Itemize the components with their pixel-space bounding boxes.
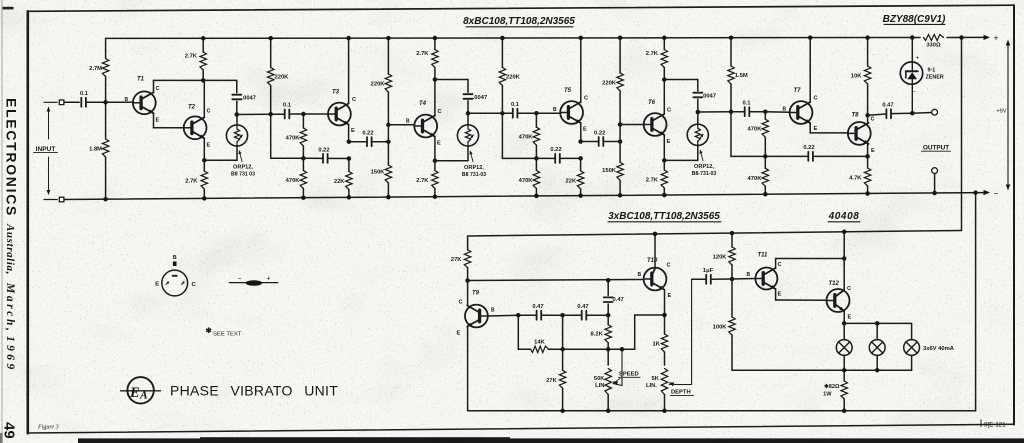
LDR ORP12 first — [226, 115, 247, 161]
resistor 470K lower stage1 — [286, 158, 307, 197]
wire 0.1 to T5 base node — [517, 112, 536, 114]
svg-text:9·1: 9·1 — [928, 68, 936, 74]
svg-text:B: B — [173, 255, 177, 261]
svg-text:✱82Ω: ✱82Ω — [824, 383, 840, 390]
capacitor 0.22 stage3 — [765, 145, 867, 161]
wire 1uF to T11 base node — [711, 278, 732, 280]
svg-text:22K: 22K — [334, 179, 345, 185]
svg-text:PHASE VIBRATO UNIT: PHASE VIBRATO UNIT — [170, 383, 338, 399]
INPUT label with span arrows — [34, 107, 58, 196]
svg-text:1μF: 1μF — [703, 268, 714, 274]
node 0.22 stage2 at divider — [618, 139, 623, 144]
node 27K tail at 0V rail — [560, 409, 565, 414]
spine text ELECTRONICS — [4, 98, 20, 217]
title PHASE VIBRATO UNIT — [170, 383, 338, 399]
title 40408 — [828, 211, 860, 222]
node 220K at +9V rail — [268, 36, 273, 41]
svg-text:T10: T10 — [647, 258, 658, 264]
wire T3 emitter down — [348, 125, 350, 142]
svg-text:C: C — [871, 117, 875, 123]
transistor T6 — [644, 100, 671, 145]
node 470K midpoint stage2 — [534, 156, 539, 161]
caption Figure 3 — [37, 425, 59, 431]
input terminal top — [59, 100, 64, 105]
svg-text:10K: 10K — [851, 74, 862, 80]
svg-text:B8-731-03: B8-731-03 — [692, 171, 717, 177]
transistor T1 — [125, 77, 160, 124]
wire input bottom stub — [44, 199, 57, 201]
wire first 0.47 tap down — [517, 315, 519, 349]
DEPTH label — [671, 390, 694, 396]
svg-text:8.2K: 8.2K — [591, 332, 604, 338]
svg-text:C: C — [847, 286, 851, 292]
node divider at +9V rail — [386, 36, 391, 41]
transistor T8 — [848, 113, 875, 155]
capacitor 0.22 series stage2 — [581, 130, 621, 146]
wire 1.5M junction to 0.1 stage3 — [731, 111, 745, 113]
resistor 2.7M — [89, 38, 109, 102]
node 22K at 0V rail — [347, 195, 352, 200]
title 8xBC108,TT108,2N3565 — [463, 16, 575, 27]
svg-text:470K: 470K — [748, 176, 763, 182]
wire T9 collector node to T10 base — [468, 280, 644, 281]
node third 0.47 junction — [606, 313, 611, 318]
wire +9V feed to oscillator section — [961, 38, 963, 231]
node T12 emitter junction — [842, 321, 847, 326]
resistor 470K lower stage3 — [748, 156, 769, 194]
node speed wiper tie — [620, 347, 625, 352]
svg-text:0.22: 0.22 — [550, 147, 561, 153]
input terminal bottom — [59, 197, 64, 202]
svg-text:1W: 1W — [823, 392, 832, 398]
wire depth wiper to 1uF cap — [692, 278, 707, 280]
svg-text:C: C — [438, 109, 442, 115]
node 0.22 at divider — [386, 139, 391, 144]
wire T12 emitter down — [843, 311, 845, 323]
svg-text:C: C — [207, 109, 211, 115]
resistor 82 ohm 1W — [823, 370, 847, 411]
node 2.7K load at +9V rail — [201, 36, 206, 41]
wire 14K junction to 8.2K junction — [563, 348, 635, 350]
svg-text:470K: 470K — [286, 136, 301, 142]
node T6 emitter resistor at 0V rail — [662, 193, 667, 198]
resistor 470K upper stage1 — [286, 114, 307, 158]
node 1.5M at +9V rail — [729, 35, 734, 40]
node T6 emitter / ORP12 return — [662, 158, 667, 163]
wire T9 base to network — [487, 314, 518, 317]
svg-text:0.47: 0.47 — [613, 297, 624, 303]
node T4 base tap — [386, 123, 391, 128]
svg-text:220K: 220K — [602, 80, 617, 86]
capacitor .0047 stage3 — [693, 80, 702, 113]
svg-text:BZY88(C9V1): BZY88(C9V1) — [883, 14, 946, 25]
capacitor 0.1 input coupling — [80, 91, 89, 107]
output terminal bottom — [932, 168, 938, 174]
resistor 27K oscillator tail — [546, 349, 566, 411]
node divider stage2 at +9V rail — [618, 36, 623, 41]
svg-text:C: C — [814, 96, 818, 102]
wire T1 collector — [154, 80, 237, 92]
wire T6 emitter down — [664, 135, 698, 160]
bottom black scan band — [78, 437, 1024, 443]
wire +9V top supply rail — [106, 37, 983, 38]
node .0047 junction stage3 — [696, 110, 701, 115]
resistor 2.7K T2 emitter — [185, 160, 207, 198]
wire T9 emitter to 0V rail — [467, 327, 469, 411]
capacitor 0.47 output coupling — [882, 102, 893, 118]
resistor 22K T5 emitter — [566, 158, 584, 195]
capacitor 0.22 series stage1 — [349, 131, 389, 147]
legend transistor pinout circle — [155, 255, 196, 296]
svg-text:B8 731 03: B8 731 03 — [231, 172, 255, 178]
capacitor 0.1 stage2 — [511, 102, 520, 118]
node T4 load at +9V rail — [433, 36, 438, 41]
resistor 1.5M stage3 coupling — [728, 38, 748, 112]
wire zener node to output terminal — [912, 112, 931, 115]
svg-text:B: B — [406, 119, 410, 125]
svg-text:SPEED: SPEED — [619, 372, 639, 378]
svg-text:A: A — [139, 389, 148, 401]
transistor T2 — [184, 105, 211, 149]
svg-text:0.1: 0.1 — [80, 91, 89, 97]
svg-text:50K: 50K — [594, 376, 605, 382]
capacitor 0.1 stage3 — [742, 100, 751, 116]
svg-text:2.7K: 2.7K — [416, 51, 429, 57]
svg-text:ELECTRONICS: ELECTRONICS — [4, 98, 20, 217]
node 470K midpoint stage1 — [301, 156, 306, 161]
node T5 emitter junction — [578, 139, 583, 144]
svg-text:C: C — [667, 263, 671, 269]
wire T3 collector to +9V rail — [348, 38, 350, 103]
svg-text:B: B — [783, 107, 787, 113]
svg-text:2.7K: 2.7K — [416, 178, 429, 184]
node +9V feed at top rail — [959, 35, 964, 40]
svg-text:5K: 5K — [651, 376, 659, 382]
svg-text:22K: 22K — [566, 178, 577, 184]
node T6 base tap — [618, 122, 623, 127]
wire T10 emitter down — [664, 290, 666, 315]
svg-text:1K: 1K — [652, 342, 660, 348]
wire T3 base — [303, 113, 328, 115]
wire 0.1 cap to bias node — [86, 101, 106, 103]
svg-text:C: C — [778, 262, 782, 268]
node 0.22 at T5 emitter line — [578, 156, 583, 161]
wire T11 emitter to T12 base — [776, 289, 827, 300]
LDR ORP12 second — [457, 113, 478, 161]
wire T11 collector path — [776, 259, 845, 269]
wire T7 collector to +9V rail — [809, 38, 811, 102]
node T5 collector at rail — [579, 36, 584, 41]
resistor 120K lamp driver bias upper — [713, 233, 736, 279]
label ORP12 third with pointer — [692, 150, 717, 177]
svg-text:1.8M: 1.8M — [89, 147, 102, 153]
wire T6 collector node to .0047 — [664, 79, 698, 81]
resistor 220K stage1 coupling — [268, 38, 290, 114]
node 120K at oscillator rail — [730, 231, 735, 236]
svg-text:E: E — [848, 315, 852, 321]
transistor T5 emitter follower — [553, 88, 588, 133]
svg-text:.0047: .0047 — [702, 94, 717, 100]
svg-text:3xBC108,TT108,2N3565: 3xBC108,TT108,2N3565 — [608, 211, 720, 222]
resistor 2.7K T6 collector load — [646, 38, 668, 80]
svg-text:1.5M: 1.5M — [735, 73, 748, 79]
svg-text:T6: T6 — [648, 100, 656, 106]
svg-text:40408: 40408 — [828, 211, 860, 222]
node T6 collector load junction — [662, 77, 667, 82]
node 470K at 0V rail stage1 — [301, 195, 306, 200]
resistor 2.7K T4 emitter — [416, 161, 438, 197]
node lamp1 at bottom bus — [842, 368, 847, 373]
transistor T11 darlington first — [747, 253, 782, 298]
svg-text:LIN: LIN — [595, 383, 604, 389]
svg-text:4.7K: 4.7K — [849, 176, 862, 182]
node T9 collector junction — [465, 278, 470, 283]
node 0V feed at 0V rail — [973, 190, 978, 195]
wire L-path 220K junction down-right stage1 — [271, 114, 304, 158]
svg-text:B8 731-03: B8 731-03 — [462, 172, 486, 178]
wire T12 collector to oscillator rail — [843, 232, 845, 290]
node 150K at 0V rail — [386, 195, 391, 200]
svg-text:✱: ✱ — [206, 326, 213, 335]
svg-text:E: E — [778, 292, 782, 298]
svg-text:9[E-121: 9[E-121 — [984, 421, 1006, 428]
svg-text:0.1: 0.1 — [283, 103, 292, 109]
node speed pot at 0V rail — [606, 409, 611, 414]
wire T7 emitter to T8 base — [810, 123, 848, 133]
wire 0.1 to T7 base node — [749, 111, 765, 113]
wire L-path stage3 — [731, 112, 765, 157]
svg-text:ORP12,: ORP12, — [233, 165, 253, 171]
label 3x6V 40mA — [923, 346, 955, 352]
wire lamp2 bottom lead — [876, 355, 878, 370]
spine page number 49 — [1, 422, 18, 439]
svg-text:−: − — [912, 89, 916, 96]
svg-text:T11: T11 — [758, 253, 769, 259]
svg-text:8xBC108,TT108,2N3565: 8xBC108,TT108,2N3565 — [463, 16, 575, 27]
capacitor 0.1 stage1 — [283, 103, 292, 119]
wire L-path stage2 — [502, 113, 536, 158]
capacitor .0047 bootstrap stage 1 — [232, 80, 256, 114]
label .0047 stage3 — [702, 94, 717, 100]
svg-text:470K: 470K — [519, 178, 534, 184]
svg-text:220K: 220K — [506, 75, 521, 81]
svg-text:T12: T12 — [829, 281, 840, 287]
wire input to 0.1 cap — [64, 101, 79, 103]
svg-text:E: E — [871, 148, 875, 154]
svg-text:DEPTH: DEPTH — [671, 390, 691, 396]
wire T10 collector to oscillator rail — [654, 234, 656, 268]
wire stage3 output node to RC network — [698, 111, 731, 113]
lamp 3 — [904, 340, 920, 356]
wire T8 emitter down — [867, 144, 869, 157]
transistor T12 darlington output — [827, 281, 852, 321]
wire lamp2 top lead — [876, 323, 878, 339]
node bias divider junction — [103, 100, 108, 105]
svg-text:0.1: 0.1 — [511, 102, 520, 108]
svg-text:E: E — [207, 143, 211, 149]
svg-text:220K: 220K — [275, 75, 290, 81]
svg-text:220K: 220K — [371, 82, 386, 88]
wire T6 collector — [663, 80, 665, 115]
svg-text:SEE TEXT: SEE TEXT — [213, 331, 242, 337]
svg-text:.0047: .0047 — [242, 96, 257, 102]
node T11 collector at T12 collector line — [842, 256, 847, 261]
resistor 4.7K T8 emitter — [849, 156, 871, 193]
wire T5 base — [536, 112, 560, 114]
svg-text:ZENER: ZENER — [926, 75, 944, 81]
resistor 470K lower stage2 — [519, 158, 540, 196]
svg-text:2.7K: 2.7K — [646, 178, 659, 184]
node T4 emitter resistor at 0V rail — [433, 194, 438, 199]
resistor 330 ohm in supply rail — [924, 35, 944, 49]
svg-text:B: B — [491, 308, 495, 314]
zener diode BZY88 9.1V — [900, 38, 922, 114]
wire lamp1 bottom lead — [843, 355, 845, 370]
wire 220K junction to 0.1 cap stage1 — [271, 113, 285, 115]
legend electrolytic capacitor symbol — [229, 275, 277, 286]
svg-text:T7: T7 — [794, 88, 802, 94]
resistor 220K divider stage2 — [602, 38, 623, 125]
label ORP12 second with pointer — [462, 150, 486, 178]
node zener bottom junction — [910, 111, 915, 116]
svg-text:C: C — [352, 97, 356, 103]
capacitor 0.22 shunt stage2 — [536, 147, 580, 163]
svg-text:March,: March, — [4, 282, 16, 333]
svg-text:0.22: 0.22 — [803, 145, 814, 151]
wire bias node to T1 base — [106, 101, 133, 103]
svg-text:B: B — [125, 97, 129, 103]
wire T1 emitter to T2 base — [154, 113, 184, 128]
label ORP12 first with pointer — [231, 150, 255, 178]
wire stage1 output node to RC network — [237, 113, 271, 115]
svg-text:150K: 150K — [371, 170, 386, 176]
wire lamp3 bottom lead — [911, 355, 913, 370]
node lamp2 top tap — [875, 321, 880, 326]
svg-text:T2: T2 — [188, 105, 196, 111]
node 82 ohm at 0V rail — [842, 409, 847, 414]
svg-text:14K: 14K — [534, 339, 545, 345]
resistor 220K divider stage1 — [371, 38, 392, 125]
resistor 14K oscillator — [518, 339, 562, 352]
node T4 collector load junction — [433, 77, 438, 82]
resistor 8.2K oscillator — [591, 315, 612, 349]
output terminal top — [932, 109, 938, 115]
resistor 1.8M — [89, 102, 109, 199]
svg-text:T3: T3 — [332, 90, 340, 96]
svg-text:470K: 470K — [748, 127, 763, 133]
wire oscillator +9V rail — [468, 231, 962, 237]
wire T6 base — [620, 124, 644, 126]
node 1.8M to 0V rail — [103, 197, 108, 202]
wire T11 base — [732, 278, 756, 281]
resistor 470K upper stage2 — [519, 113, 540, 158]
node T2 emitter / ORP12 return — [202, 158, 207, 163]
title 3xBC108,TT108,2N3565 — [608, 211, 721, 222]
node 220K stage2 at +9V rail — [500, 36, 505, 41]
node 470K stage2 at 0V rail — [534, 194, 539, 199]
wire T8 collector to 0.47 cap — [868, 114, 887, 115]
svg-text:OUTPUT: OUTPUT — [923, 144, 949, 151]
svg-text:0.22: 0.22 — [594, 130, 605, 136]
transistor T4 — [406, 101, 442, 147]
wire stage2 output node to RC network — [468, 112, 502, 114]
resistor 22K T3 emitter — [334, 159, 352, 198]
LDR ORP12 third — [687, 112, 708, 160]
wire oscillator 0V bottom rail — [468, 410, 976, 412]
svg-text:ORP12,: ORP12, — [694, 164, 714, 170]
top-left margin mark — [3, 7, 14, 10]
wire lamp bottom bus — [732, 369, 912, 371]
svg-text:C: C — [667, 108, 671, 114]
transistor T7 emitter follower — [783, 88, 818, 132]
node 1.5M bottom junction — [729, 110, 734, 115]
title BZY88(C9V1) — [883, 14, 946, 25]
node T3 emitter junction — [347, 139, 352, 144]
svg-text:C: C — [459, 300, 463, 306]
node 0.22 at T3 emitter line — [347, 156, 352, 161]
svg-text:−: − — [994, 189, 999, 199]
svg-text:C: C — [156, 86, 160, 92]
node T11 base divider junction — [730, 277, 735, 282]
svg-text:B: B — [553, 107, 557, 113]
wire input top stub — [44, 101, 57, 103]
node T6 load at +9V rail — [662, 36, 667, 41]
transistor T3 emitter follower — [328, 90, 356, 135]
left page-edge shading — [0, 0, 3, 443]
potentiometer 5K LIN depth — [646, 369, 668, 411]
svg-text:ORP12,: ORP12, — [464, 165, 484, 171]
wire 0V bottom rail — [62, 193, 983, 200]
wire feedback up to T10 emitter — [635, 315, 665, 349]
capacitor 0.47 second oscillator — [563, 304, 609, 320]
node 150K stage2 at 0V rail — [618, 193, 623, 198]
svg-text:+: + — [267, 275, 271, 282]
node 22K stage2 at 0V rail — [578, 193, 583, 198]
node zener at +9V rail — [910, 35, 915, 40]
svg-text:INPUT: INPUT — [36, 146, 56, 153]
resistor 2.7K T4 collector load — [416, 38, 438, 80]
wiper of depth pot — [669, 279, 692, 386]
svg-text:2.7K: 2.7K — [185, 54, 198, 60]
wire lamp3 top lead — [911, 323, 913, 339]
node T3 base junction — [301, 112, 306, 117]
node T2 emitter resistor at 0V rail — [202, 196, 207, 201]
node T2 collector / 2.7K load junction — [201, 78, 206, 83]
svg-text:+9V: +9V — [996, 109, 1006, 115]
svg-text:0.47: 0.47 — [577, 304, 588, 310]
node T9 base junction — [516, 313, 521, 318]
wire T2 emitter down — [204, 138, 237, 160]
svg-text:100K: 100K — [713, 325, 728, 331]
svg-text:E: E — [156, 118, 160, 124]
wire lamp top bus — [844, 322, 911, 324]
svg-text:0.47: 0.47 — [532, 304, 543, 310]
capacitor 1uF lamp driver coupling — [703, 268, 714, 284]
svg-text:.0047: .0047 — [473, 95, 488, 101]
node lamp2 at bottom bus — [875, 368, 880, 373]
svg-text:B: B — [747, 272, 751, 278]
svg-text:B: B — [638, 272, 642, 278]
resistor 100K lamp driver bias lower — [713, 279, 736, 370]
arrowhead and + terminal of supply rail — [984, 33, 999, 43]
svg-text:Figure 3: Figure 3 — [37, 425, 59, 431]
transistor T10 emitter follower — [638, 258, 672, 299]
svg-text:T1: T1 — [137, 77, 145, 83]
wiper of speed pot — [612, 349, 622, 385]
resistor 2.7K T6 emitter — [646, 160, 668, 195]
svg-text:E: E — [667, 139, 671, 145]
svg-text:E: E — [457, 331, 461, 337]
